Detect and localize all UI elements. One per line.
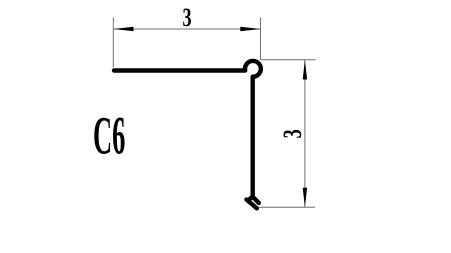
svg-text:3: 3 (278, 129, 307, 138)
svg-text:3: 3 (182, 3, 191, 32)
svg-text:C6: C6 (93, 107, 125, 167)
